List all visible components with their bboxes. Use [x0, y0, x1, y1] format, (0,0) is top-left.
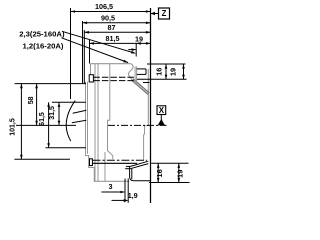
- dimension 81,5: [90, 42, 151, 44]
- rear step jog at centreline: [145, 125, 149, 127]
- Z marker box: [159, 8, 170, 19]
- bottom bar low stub lower edge: [125, 168, 130, 170]
- horizontal centreline dash-dot: [108, 124, 167, 126]
- rear face lower segment: [143, 134, 145, 160]
- svg-text:87: 87: [108, 23, 116, 32]
- breaker case rear face upper: [147, 69, 149, 126]
- dimension 19 bottom: [178, 163, 180, 182]
- svg-text:1,2(16-20A): 1,2(16-20A): [22, 41, 63, 50]
- leader line 2: [62, 38, 129, 63]
- dimension 16 top: [165, 64, 167, 79]
- internal case seam: [108, 64, 113, 160]
- svg-text:Z: Z: [162, 9, 167, 18]
- handle lever low position: [72, 120, 86, 122]
- front cover face inner line: [87, 82, 89, 154]
- extension line y182.5 right: [149, 182, 189, 184]
- extension line y147.8 (bottom of 61,5): [46, 147, 87, 149]
- rear top moulded S-contour: [129, 64, 134, 80]
- svg-text:58: 58: [28, 96, 35, 104]
- dimension 106,5: [71, 11, 151, 13]
- breaker case front top corner: [90, 64, 92, 75]
- dimension 101,5: [20, 84, 22, 160]
- rear recess line: [143, 82, 150, 84]
- extension line front-most (handle): [70, 8, 72, 99]
- svg-text:2,3(25-160A): 2,3(25-160A): [19, 29, 65, 38]
- rear top stud lower edge: [137, 73, 146, 75]
- svg-text:101,5: 101,5: [10, 118, 17, 136]
- extension line y102.3 (top of 31,5): [52, 101, 86, 103]
- top terminal hidden bar lower edge: [93, 80, 134, 82]
- front cover face outer line: [85, 82, 87, 154]
- extension line bar edge 2: [127, 179, 129, 203]
- arc chute vertical line: [104, 152, 106, 181]
- svg-text:31,5: 31,5: [49, 106, 56, 120]
- handle lever mid position: [73, 110, 87, 113]
- dimension 19 top right: [183, 64, 185, 79]
- mounting plane line: [150, 8, 152, 203]
- extension line terminal cap: [82, 21, 84, 83]
- rear step jog 2: [143, 133, 146, 135]
- extension line case front corner: [89, 40, 91, 64]
- breaker case top edge: [91, 63, 131, 65]
- dimension 90,5: [83, 22, 151, 24]
- extension line y79.3 right: [137, 78, 187, 80]
- dimension 58: [36, 84, 38, 126]
- bottom bar low stub upper edge: [126, 165, 130, 167]
- extension line front cover face: [83, 30, 85, 83]
- mounting bracket front edge outer: [130, 167, 151, 181]
- svg-text:16: 16: [155, 68, 164, 76]
- extension line y83.6 (top of 101,5 and 58): [15, 83, 86, 85]
- rear top stud end cap: [145, 69, 147, 75]
- X marker pointer triangle: [158, 119, 165, 125]
- internal moulding line 2: [97, 64, 99, 182]
- dimension 16 bottom: [157, 163, 159, 182]
- svg-text:19: 19: [135, 35, 143, 44]
- rear chamfer edge inner: [133, 79, 150, 93]
- terminal block front face lines: [134, 66, 136, 84]
- svg-text:16: 16: [155, 169, 164, 177]
- Z marker stub: [151, 13, 159, 15]
- X marker stem: [160, 115, 162, 121]
- svg-text:19: 19: [176, 170, 185, 178]
- mounting bracket front edge inner: [131, 169, 133, 180]
- handle swing arc: [66, 101, 75, 141]
- leader line 1: [62, 31, 135, 53]
- X marker box: [157, 106, 166, 115]
- svg-text:90,5: 90,5: [101, 14, 115, 23]
- bottom bar top edge: [92, 162, 137, 164]
- top terminal hidden bar upper edge: [93, 76, 134, 78]
- extension line y163.3 right: [151, 162, 188, 164]
- bottom bar rise to rear lower edge: [130, 164, 148, 169]
- extension line y159.3 (bottom of 101,5): [14, 158, 70, 160]
- bottom bar rise to rear upper edge: [130, 161, 148, 166]
- svg-text:19: 19: [169, 68, 178, 76]
- svg-text:106,5: 106,5: [95, 2, 113, 11]
- rear chamfer edge outer: [132, 80, 149, 95]
- internal moulding line 1: [94, 64, 96, 182]
- rear top stud upper edge: [137, 68, 146, 70]
- bottom terminal screw cap: [90, 159, 93, 166]
- dimension 31,5: [58, 102, 60, 125]
- bottom stud axis centerline: [92, 159, 147, 161]
- extension line bar edge 1: [124, 179, 126, 203]
- horizontal centreline solid left part: [16, 124, 76, 126]
- extension line terminal block face: [135, 43, 137, 56]
- svg-text:3: 3: [109, 182, 113, 191]
- rear face recessed segment: [144, 126, 146, 135]
- top terminal screw cap: [89, 75, 93, 82]
- dimension 61,5: [48, 102, 50, 148]
- extension line y64 right: [147, 63, 186, 65]
- svg-text:61,5: 61,5: [39, 112, 46, 126]
- case bottom front step profile: [86, 154, 130, 182]
- svg-text:81,5: 81,5: [106, 34, 120, 43]
- svg-text:X: X: [159, 106, 165, 115]
- dimension 87: [84, 31, 150, 33]
- svg-text:1,9: 1,9: [128, 191, 138, 200]
